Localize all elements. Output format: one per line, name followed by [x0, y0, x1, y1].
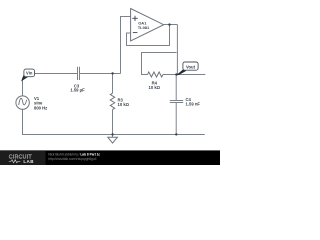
- wire V1 top lead: [22, 78, 24, 96]
- svg-text:1.59 µF: 1.59 µF: [70, 88, 85, 93]
- node junction Vout: [175, 73, 177, 75]
- wire C4 top lead: [175, 75, 177, 101]
- wire R3 top lead: [112, 74, 114, 94]
- wire Vout node to right edge: [177, 74, 206, 76]
- wire ground stub: [112, 135, 114, 138]
- watermark bar: [0, 150, 220, 165]
- capacitor C3: [78, 67, 80, 80]
- node flag Vin: [21, 69, 34, 81]
- op-amp OA1 label: [138, 20, 150, 30]
- capacitor C3 label: [70, 83, 85, 92]
- wire up to + input: [121, 17, 131, 74]
- svg-text:10 kΩ: 10 kΩ: [118, 102, 130, 107]
- svg-text:Nick Bluhm (kbluhm) / Lab 8 Pa: Nick Bluhm (kbluhm) / Lab 8 Part 1c: [48, 152, 100, 156]
- resistor R4: [148, 72, 164, 77]
- wire R4 right lead: [163, 74, 177, 76]
- node flag Vout: [176, 62, 198, 75]
- wire feedback output to minus input: [127, 25, 170, 46]
- wire C3 to op-amp + corner: [80, 73, 121, 75]
- resistor R3 label: [118, 98, 130, 108]
- svg-text:Vout: Vout: [186, 65, 196, 70]
- wire output branch to R4 left: [142, 53, 177, 75]
- op-amp OA1: [131, 9, 164, 42]
- svg-text:1.59 nF: 1.59 nF: [186, 102, 201, 107]
- wire C4 bottom lead: [175, 103, 177, 135]
- voltage source V1: [16, 96, 29, 109]
- resistor R4 label: [149, 80, 161, 89]
- wire R3 bottom lead: [112, 110, 114, 135]
- wire Vin to C3: [35, 73, 78, 75]
- capacitor C4: [170, 101, 183, 103]
- node junction at op-amp output: [168, 23, 170, 25]
- watermark logo wave: [9, 160, 21, 163]
- svg-text:http:∕∕circuitlab.com∕c∕bupqrg: http:∕∕circuitlab.com∕c∕bupqrgh5gu4: [48, 157, 96, 161]
- svg-text:Vin: Vin: [26, 71, 33, 76]
- svg-text:10 kΩ: 10 kΩ: [149, 85, 161, 90]
- capacitor C4 label: [186, 97, 201, 107]
- voltage source V1 label: [34, 96, 47, 111]
- node junction ground: [111, 133, 113, 135]
- wire output down to Vout node: [176, 25, 178, 75]
- svg-text:TL081: TL081: [138, 25, 150, 30]
- node junction C4 bottom: [175, 133, 177, 135]
- wire bottom rail: [23, 109, 205, 134]
- ground: [108, 137, 118, 143]
- watermark logo box: [0, 150, 46, 165]
- svg-text:LAB: LAB: [23, 159, 34, 164]
- resistor R3: [110, 93, 114, 109]
- svg-text:800 Hz: 800 Hz: [34, 105, 47, 110]
- node junction at R3 top: [111, 72, 113, 74]
- wire op-amp output: [164, 24, 178, 26]
